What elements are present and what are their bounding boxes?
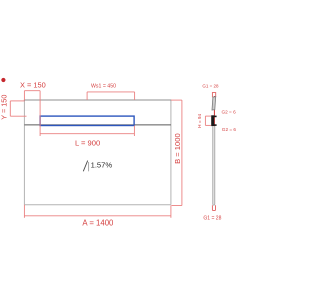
tray outline top edge	[24, 99, 172, 101]
dimension B = 1000 line	[171, 100, 182, 205]
red marker dot	[1, 78, 5, 82]
svg-text:H = 94: H = 94	[197, 114, 202, 128]
section view: tray thin lower part (double line)	[213, 126, 215, 204]
drain channel (blue rectangle)	[40, 116, 134, 125]
section view: G1 bottom bracket	[212, 205, 215, 210]
svg-text:1.57%: 1.57%	[91, 161, 113, 170]
svg-text:L = 900: L = 900	[75, 139, 100, 148]
svg-text:Ws1 = 450: Ws1 = 450	[91, 84, 116, 90]
slope triangle symbol	[83, 161, 87, 172]
section view: tray wedge (upper part)	[212, 97, 216, 110]
dimension H = 94 bracket	[205, 116, 211, 125]
divider line at channel bottom	[24, 124, 171, 126]
dimension Ws1 = 450 bracket	[87, 92, 135, 100]
svg-text:G1 = 28: G1 = 28	[202, 84, 219, 89]
dimension L = 900 bracket	[40, 100, 134, 136]
tray outline (plan view) left edge	[23, 100, 25, 205]
dimension Y = 150 bracket	[10, 101, 26, 116]
svg-text:Y = 150: Y = 150	[0, 95, 8, 120]
dimension X = 150 bracket	[24, 91, 40, 100]
tray outline right edge	[170, 100, 172, 205]
dimension A = 1400 line	[24, 205, 171, 218]
svg-text:A = 1400: A = 1400	[82, 218, 114, 227]
svg-text:G2 = 6: G2 = 6	[222, 127, 236, 132]
svg-text:G1 = 28: G1 = 28	[203, 216, 221, 222]
svg-text:G2 = 6: G2 = 6	[222, 109, 237, 114]
section view: red centerline	[213, 96, 215, 132]
section view: G1 top bracket	[212, 93, 215, 98]
svg-text:B = 1000: B = 1000	[173, 133, 182, 164]
tray outline bottom edge	[24, 204, 171, 206]
svg-text:X = 150: X = 150	[20, 81, 46, 90]
section view: channel body (black bracket shape)	[213, 115, 217, 126]
